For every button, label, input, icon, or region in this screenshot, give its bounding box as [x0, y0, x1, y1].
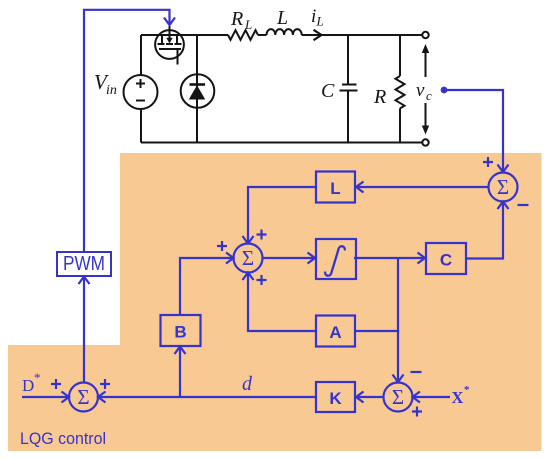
wire R branch	[399, 35, 401, 143]
wire diode branch	[196, 35, 198, 143]
svg-text:C: C	[440, 251, 452, 270]
svg-text:Σ: Σ	[392, 385, 404, 409]
svg-text:i: i	[311, 6, 316, 27]
arrowhead into S2 bottom	[243, 273, 254, 281]
svg-text:R: R	[373, 86, 386, 108]
wire capacitor branch	[347, 35, 349, 143]
svg-text:in: in	[106, 83, 117, 98]
arrowhead into S2 top	[243, 236, 254, 244]
arrowhead into S4 right	[413, 392, 421, 403]
svg-text:X: X	[452, 388, 464, 407]
sign + at S4 bottom	[412, 407, 422, 417]
wire state feedback down to S4	[397, 258, 399, 381]
sign + at S3 left	[51, 379, 61, 389]
wire S2 to integrator	[263, 257, 315, 259]
svg-text:L: L	[330, 179, 340, 198]
terminal bottom	[422, 139, 428, 145]
voltage source Vin	[124, 75, 158, 109]
svg-text:A: A	[329, 323, 341, 342]
wire Vin branch bottom	[140, 109, 142, 143]
svg-text:v: v	[416, 80, 425, 101]
wire B to S2 left	[180, 258, 233, 315]
sign + at S2 left	[217, 241, 227, 251]
wire Vin branch top	[140, 35, 142, 75]
sign + at S2 bottomright	[257, 275, 267, 285]
arrowhead into PWM bottom	[79, 277, 90, 285]
block B	[161, 315, 201, 346]
terminal top	[422, 32, 428, 38]
summing junction S2	[234, 244, 263, 273]
resistor R	[396, 76, 405, 108]
current arrow iL	[314, 30, 322, 40]
arrowhead into S3 right	[98, 392, 106, 403]
summing junction S1	[489, 173, 518, 202]
svg-text:D: D	[22, 376, 34, 395]
block L	[316, 172, 355, 203]
wire S1 to L	[357, 186, 489, 188]
wire L to S2 top	[248, 187, 316, 242]
sign - at S4 top	[411, 371, 422, 373]
svg-text:Σ: Σ	[497, 175, 509, 199]
transistor Q1 (MOSFET switch)	[155, 26, 184, 65]
arrowhead into C left	[418, 253, 426, 264]
summing junction S4	[384, 383, 413, 412]
summing junction S3	[69, 383, 98, 412]
svg-text:PWM: PWM	[63, 253, 105, 275]
sign + at S3 right	[100, 379, 110, 389]
wire state to A input	[355, 330, 398, 332]
wire top rail right	[180, 34, 422, 36]
arrowhead into sum S1 top	[498, 165, 509, 173]
arrowhead into S3 left	[62, 392, 70, 403]
svg-text:c: c	[426, 88, 432, 103]
wire top rail left	[141, 34, 159, 36]
svg-text:K: K	[329, 389, 342, 408]
svg-text:*: *	[464, 384, 470, 396]
svg-text:L: L	[316, 14, 324, 29]
arrowhead into S2 left	[226, 253, 234, 264]
svg-text:d: d	[242, 373, 253, 395]
capacitor C	[340, 85, 358, 91]
wire S4 to K	[357, 396, 384, 398]
arrowhead into MOSFET gate	[164, 18, 175, 26]
block integrator	[316, 239, 356, 279]
LQG control shaded region	[8, 153, 542, 451]
svg-text:Σ: Σ	[242, 246, 254, 270]
wire PWM gate drive	[84, 10, 170, 382]
wire integrator to C	[354, 257, 425, 259]
voltage arrow vc	[422, 44, 429, 135]
svg-text:LQG control: LQG control	[20, 429, 106, 448]
svg-text:*: *	[34, 370, 41, 385]
wire d to B input	[179, 348, 181, 397]
resistor RL	[228, 30, 258, 40]
wire K to S3 (d line)	[99, 396, 316, 398]
arrowhead into L right	[356, 182, 364, 193]
wire X* into S4	[414, 396, 451, 398]
arrowhead into K right	[356, 392, 364, 403]
diode D1	[181, 74, 215, 108]
node vc tap dot	[441, 87, 448, 94]
block K	[316, 382, 355, 412]
arrowhead into S1 bottom	[498, 202, 509, 210]
block PWM	[57, 252, 111, 276]
wire C to S1 bottom	[466, 203, 503, 259]
arrowhead into B bottom	[175, 347, 186, 355]
svg-text:R: R	[230, 8, 243, 30]
block C	[426, 243, 466, 274]
sign - at S1 bottom	[518, 204, 529, 206]
svg-text:C: C	[321, 80, 335, 102]
inductor L	[267, 29, 302, 35]
arrowhead into S4 top	[393, 375, 404, 383]
block A	[316, 316, 355, 347]
svg-text:Σ: Σ	[77, 385, 89, 409]
svg-text:B: B	[174, 323, 186, 342]
wire A to S2 bottom	[248, 274, 316, 331]
arrowhead into integrator left	[308, 253, 316, 264]
svg-text:L: L	[244, 17, 252, 32]
wire bottom rail	[141, 142, 422, 144]
svg-text:L: L	[276, 7, 288, 29]
wire D* into S3	[22, 396, 68, 398]
wire vc tap	[444, 90, 503, 171]
sign + at S1 top	[483, 157, 493, 167]
sign + at S2 topright	[257, 230, 267, 240]
